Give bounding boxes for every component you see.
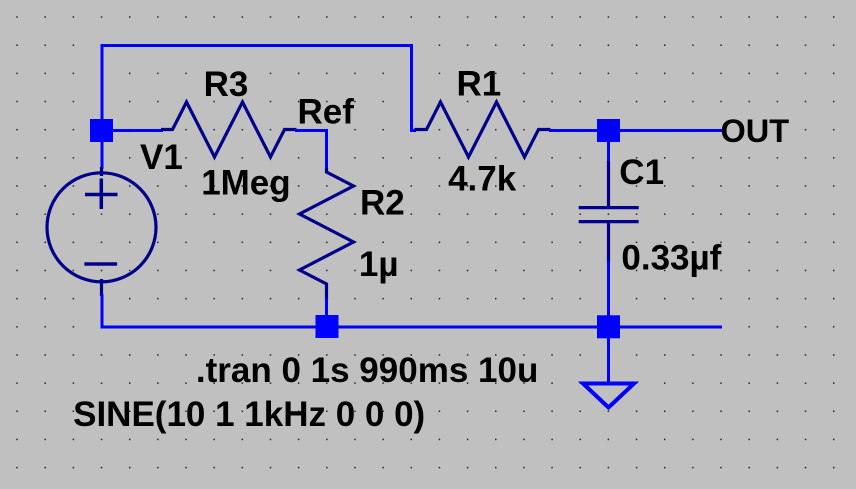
svg-text:1µ: 1µ xyxy=(359,245,399,284)
svg-text:SINE(10 1 1kHz 0 0 0): SINE(10 1 1kHz 0 0 0) xyxy=(73,395,425,434)
svg-text:V1: V1 xyxy=(140,138,183,177)
wire C1 to node N4 xyxy=(607,261,610,317)
svg-text:OUT: OUT xyxy=(721,113,790,149)
svg-text:R1: R1 xyxy=(457,64,502,103)
voltage source V1 circle xyxy=(47,173,156,282)
wire bottom rail xyxy=(101,326,723,329)
V1 bottom lead xyxy=(100,279,103,296)
node N3 junction square xyxy=(316,315,339,338)
svg-text:R3: R3 xyxy=(204,65,249,104)
svg-text:1Meg: 1Meg xyxy=(201,164,290,203)
wire node N2 to OUT xyxy=(619,129,724,132)
resistor R1 xyxy=(415,102,551,157)
V1 plus sign xyxy=(85,179,118,210)
svg-text:0.33µf: 0.33µf xyxy=(621,238,721,277)
wire R1 to node N2 xyxy=(549,129,598,132)
V1 top lead xyxy=(100,167,103,176)
svg-text:.tran 0 1s 990ms 10u: .tran 0 1s 990ms 10u xyxy=(196,351,538,390)
wire node N2 down to C1 xyxy=(607,141,610,163)
wire node N1 to R3 xyxy=(112,129,163,132)
node N1 junction square xyxy=(90,119,113,142)
svg-text:Ref: Ref xyxy=(298,92,355,131)
wire top rail xyxy=(101,44,414,47)
wire right vertical from top rail down to R1 xyxy=(412,44,417,131)
wire left vertical from top rail to node N1 xyxy=(101,44,104,169)
svg-text:C1: C1 xyxy=(619,153,664,192)
wire R2 to node N3 xyxy=(325,298,328,317)
wire node N4 to ground xyxy=(607,336,610,383)
svg-text:4.7k: 4.7k xyxy=(448,159,517,198)
node N4 junction square xyxy=(597,315,620,338)
node N2 junction square xyxy=(597,119,620,142)
resistor R2 xyxy=(300,168,354,300)
wire Ref node corner from R3 to R2 xyxy=(295,131,327,174)
V1 minus sign xyxy=(84,262,117,266)
svg-text:R2: R2 xyxy=(360,183,405,222)
resistor R3 xyxy=(161,102,297,157)
ground symbol xyxy=(583,384,634,408)
wire V1 bottom to bottom rail xyxy=(101,294,104,329)
capacitor C1 xyxy=(579,161,639,263)
